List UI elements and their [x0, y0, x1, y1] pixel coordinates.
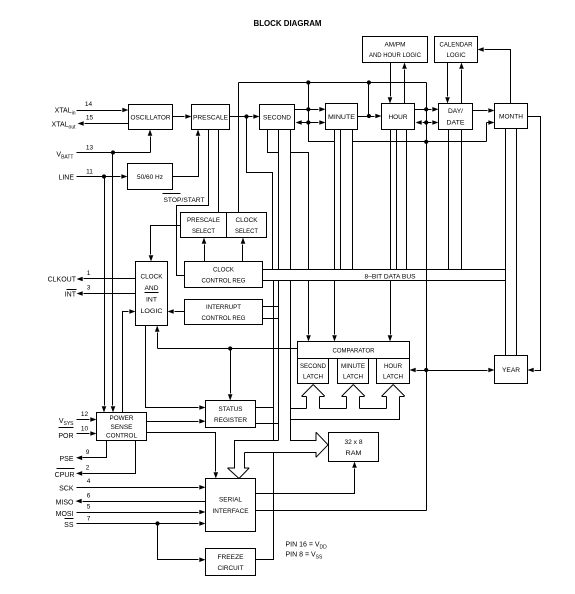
wire hour leg 2 to bus: [396, 130, 398, 270]
pin SCK (4) wire into serial interface: [59, 478, 205, 493]
wire bus drop B (x278.2): [278, 281, 280, 441]
wire day/date up to calendar logic: [459, 63, 464, 104]
block POWER SENSE CONTROL: [97, 413, 147, 441]
svg-text:SELECT: SELECT: [235, 228, 258, 235]
wire second leg 1 to bus: [278, 130, 280, 270]
bus end drop to year: [505, 270, 507, 356]
svg-text:1: 1: [87, 270, 91, 277]
wire bus drop at x308 to horizontal run: [309, 83, 335, 142]
block HOUR LATCH: [377, 359, 410, 384]
svg-text:STATUS: STATUS: [219, 406, 244, 413]
wire hour/daydate bidirectional (bottom): [416, 120, 439, 125]
svg-text:SS: SS: [64, 522, 74, 529]
wire clock control reg up to prescale select: [202, 238, 207, 262]
pin MISO (6) wire out of serial interface: [56, 493, 206, 507]
svg-text:BLOCK DIAGRAM: BLOCK DIAGRAM: [254, 19, 322, 28]
svg-text:CIRCUIT: CIRCUIT: [218, 565, 244, 572]
wire bus drop to comparator 1: [306, 281, 311, 342]
bus top line: [263, 269, 506, 271]
funnel arrow into second latch: [302, 385, 325, 409]
svg-text:LOGIC: LOGIC: [447, 52, 466, 59]
pin CPUR (2) wire from power sense control bottom: [55, 441, 136, 480]
svg-text:32 x 8: 32 x 8: [345, 439, 363, 446]
svg-text:LOGIC: LOGIC: [141, 308, 163, 315]
svg-text:FREEZE: FREEZE: [218, 554, 245, 561]
wire bus drop to latch funnels (x290): [290, 281, 292, 441]
block STATUS REGISTER: [206, 401, 256, 428]
wire bus drop to comparator 3: [388, 281, 393, 342]
svg-text:MISO: MISO: [56, 500, 74, 507]
svg-text:SENSE: SENSE: [111, 424, 133, 431]
bus bottom line: [263, 280, 506, 282]
pin INT (3) wire out of clock-int logic: [65, 285, 136, 299]
wire second leg 2 to bus: [290, 130, 292, 270]
svg-text:SECOND: SECOND: [263, 114, 291, 121]
svg-text:5: 5: [87, 504, 91, 511]
wire second to minute (top): [295, 107, 326, 112]
wire interrupt reg stub 2 to bus drop: [263, 318, 279, 320]
wire second/minute bidirectional (bottom): [296, 120, 326, 125]
pin XTALin (14) wire into oscillator: [55, 101, 129, 116]
svg-text:INT: INT: [65, 292, 77, 299]
wire day/date to month: [473, 108, 495, 113]
wire left bus segment to serial arrow: [235, 441, 279, 469]
wire serial interface feed to RAM arrow bottom: [245, 452, 317, 454]
svg-text:CLOCK: CLOCK: [236, 217, 259, 224]
wire hour to day/date (top): [415, 107, 439, 112]
wire month leg 1 through bus to year: [505, 129, 507, 356]
svg-text:CONTROL: CONTROL: [106, 432, 137, 439]
svg-text:SELECT: SELECT: [192, 228, 215, 235]
wire minute leg 3 to bus: [352, 130, 354, 270]
wire second leg 2 branch to x308: [291, 153, 309, 270]
wire minute to hour: [358, 114, 382, 119]
wire hour up to am/pm logic: [402, 63, 407, 104]
wire day/date leg 1 to bus: [448, 130, 450, 270]
wire month leg 2 through bus to year: [516, 129, 518, 356]
funnel arrow into minute latch: [342, 385, 365, 409]
wire horizontal x352-x486 at y141 up into month: [353, 120, 495, 141]
svg-text:POR: POR: [58, 433, 73, 440]
svg-text:3: 3: [87, 285, 91, 292]
wire am/pm logic down to hour: [388, 63, 393, 104]
wire funnel U loop mid: [320, 408, 347, 410]
svg-text:POWER: POWER: [110, 415, 134, 422]
block CLOCK SELECT: [227, 213, 267, 238]
funnel arrow into hour latch: [382, 385, 405, 409]
wire minute leg 1 to bus: [334, 130, 336, 270]
svg-text:2: 2: [86, 465, 90, 472]
wire power sense riser to clock-int logic left: [123, 309, 136, 412]
svg-text:12: 12: [81, 411, 89, 418]
wire hour funnel right leg to feed line: [291, 409, 400, 420]
block YEAR: [495, 356, 528, 384]
wire bus drop to comparator 2: [332, 281, 337, 342]
pin LINE (11) wire into 50/60 Hz: [58, 169, 127, 182]
svg-text:DAY/: DAY/: [448, 108, 463, 115]
svg-text:DATE: DATE: [447, 120, 466, 127]
wire oscillator to prescale: [173, 114, 192, 119]
svg-text:SCK: SCK: [59, 486, 74, 493]
svg-text:MINUTE: MINUTE: [328, 114, 356, 121]
svg-text:AND: AND: [145, 285, 159, 292]
wire bus drop A (x272.9): [273, 281, 275, 441]
svg-text:CLOCK: CLOCK: [213, 266, 235, 273]
svg-text:8–BIT DATA BUS: 8–BIT DATA BUS: [365, 274, 416, 281]
wire status register stub right 1: [256, 407, 274, 409]
svg-text:50/60 Hz: 50/60 Hz: [137, 174, 163, 181]
wire serial right to bus drop x425: [256, 510, 427, 512]
block SERIAL INTERFACE: [206, 479, 256, 532]
label STOP/START with overline over STOP: [163, 194, 205, 205]
svg-text:LATCH: LATCH: [303, 373, 323, 380]
hollow arrow into RAM: [316, 432, 328, 457]
wire clock-int logic leg to status register: [146, 326, 206, 410]
wire interrupt control reg to clock-int logic: [168, 309, 185, 314]
wire bus drop at x425 down the page: [424, 83, 428, 511]
wire prescale bottom to prescale select top: [218, 130, 220, 213]
wire second leg stub join: [268, 130, 279, 153]
svg-text:CLOCK: CLOCK: [141, 274, 164, 281]
block SECOND LATCH: [298, 359, 329, 384]
svg-text:YEAR: YEAR: [502, 367, 520, 374]
block 32 x 8 RAM: [329, 433, 379, 462]
underline of AND in clock-int-logic: [145, 292, 159, 294]
wire right feed of serial arrow: [244, 453, 246, 469]
wire clock control reg up to clock select: [241, 238, 246, 262]
wire prescale to second with junction: [230, 114, 260, 119]
wire status register stub right 2: [256, 423, 279, 425]
svg-text:OSCILLATOR: OSCILLATOR: [131, 114, 171, 121]
block MINUTE: [326, 104, 358, 130]
wire funnel U loop left: [291, 408, 307, 410]
wire day/date leg 2 to bus: [461, 130, 463, 270]
wire month right edge down to year right: [528, 117, 541, 373]
svg-text:INT: INT: [146, 297, 157, 304]
svg-text:MINUTE: MINUTE: [341, 363, 365, 370]
svg-text:COMPARATOR: COMPARATOR: [333, 347, 375, 354]
svg-text:10: 10: [81, 426, 89, 433]
pin PSE (9) wire from power sense control bottom: [59, 441, 106, 464]
block CLOCK CONTROL REG: [185, 262, 263, 288]
wire vbatt drop to power sense control: [111, 153, 116, 413]
wire serial to RAM bottom: [256, 462, 357, 494]
block COMPARATOR header: [298, 342, 410, 359]
pin SS (7) wire into serial interface with junction to freeze circuit: [64, 516, 205, 530]
svg-text:14: 14: [85, 101, 93, 108]
block MINUTE LATCH: [338, 359, 369, 384]
wire bus drop at x368 to minute-hour wire: [368, 83, 370, 117]
svg-text:CALENDAR: CALENDAR: [440, 42, 473, 49]
pin VBATT (13) wire with junction feeding oscillator: [56, 130, 152, 161]
svg-text:AND HOUR LOGIC: AND HOUR LOGIC: [369, 52, 421, 59]
block OSCILLATOR: [129, 105, 173, 130]
wire hour leg 1 to bus: [390, 130, 392, 270]
block PRESCALE SELECT: [181, 213, 227, 238]
block CALENDAR LOGIC: [435, 37, 478, 63]
svg-text:AM/PM: AM/PM: [385, 42, 406, 49]
svg-text:15: 15: [86, 115, 94, 122]
wire interrupt reg stub 1 to bus drop: [263, 306, 279, 308]
svg-text:HOUR: HOUR: [389, 114, 408, 121]
wire ss junction to freeze circuit: [158, 524, 206, 563]
svg-text:MOSI: MOSI: [56, 511, 74, 518]
block DAY/DATE: [439, 104, 473, 130]
wire top bus from corner to day/date drop: [239, 80, 427, 84]
block INTERRUPT CONTROL REG: [185, 300, 263, 325]
svg-text:CONTROL REG: CONTROL REG: [202, 315, 246, 322]
svg-text:LATCH: LATCH: [343, 373, 363, 380]
block FREEZE CIRCUIT: [206, 549, 256, 576]
hollow arrow into serial interface: [228, 468, 250, 479]
block CLOCK AND INT LOGIC: [136, 262, 168, 326]
svg-text:RAM: RAM: [346, 450, 362, 457]
svg-text:CPUR: CPUR: [55, 472, 75, 479]
wire hour leg 3 to bus: [406, 130, 408, 270]
svg-text:MONTH: MONTH: [499, 113, 523, 120]
wire bus segment down to freeze circuit: [256, 453, 274, 560]
pin VSYS (12) wire into power sense control: [59, 411, 97, 427]
block HOUR: [382, 104, 415, 130]
pin XTALout (15) wire out of oscillator: [52, 115, 129, 131]
wire comparator left to clock-int logic and status register: [155, 326, 298, 401]
pin CLKOUT (1) wire out of clock-int logic: [48, 270, 136, 284]
svg-text:INTERFACE: INTERFACE: [213, 508, 250, 515]
block 50/60 Hz: [128, 164, 173, 190]
svg-text:SECOND: SECOND: [300, 363, 327, 370]
wire funnel chain down to RAM arrow: [291, 409, 317, 441]
svg-text:CONTROL REG: CONTROL REG: [202, 277, 246, 284]
wire junction down and over to data bus (left drop): [247, 117, 273, 270]
svg-text:6: 6: [87, 493, 91, 500]
wire corner drop to clock select top: [238, 83, 240, 213]
pin MOSI (5) wire into serial interface: [56, 504, 206, 519]
block AM/PM AND HOUR LOGIC: [363, 37, 428, 63]
svg-text:PSE: PSE: [59, 456, 73, 463]
wire power sense to serial interface top: [147, 433, 219, 479]
wire prescale bottom to clock control reg (via stop/start): [177, 130, 209, 276]
block MONTH: [495, 104, 528, 129]
wire prescale select left to clock-int logic top: [149, 226, 181, 262]
svg-text:LATCH: LATCH: [383, 373, 403, 380]
svg-text:9: 9: [86, 449, 90, 456]
wire 50/60 Hz to prescale bottom: [173, 130, 201, 177]
wire year latch feed with junctions: [410, 368, 495, 373]
svg-text:REGISTER: REGISTER: [214, 417, 247, 424]
svg-text:LINE: LINE: [58, 175, 74, 182]
wire line drop to power sense control: [102, 177, 107, 413]
pin POR (10) wire into power sense control: [58, 426, 96, 440]
svg-text:HOUR: HOUR: [384, 363, 403, 370]
wire calendar logic down to day/date: [445, 63, 450, 104]
svg-text:STOP/START: STOP/START: [164, 197, 205, 204]
wire minute leg 2 to bus: [340, 130, 342, 270]
svg-text:SERIAL: SERIAL: [219, 497, 242, 504]
svg-text:PRESCALE: PRESCALE: [193, 114, 229, 121]
svg-text:11: 11: [86, 169, 93, 176]
wire power sense to status register: [147, 419, 206, 424]
svg-text:PRESCALE: PRESCALE: [187, 217, 221, 224]
svg-text:4: 4: [87, 478, 91, 485]
svg-text:CLKOUT: CLKOUT: [48, 277, 77, 284]
svg-text:7: 7: [87, 516, 91, 523]
block SECOND: [260, 105, 295, 130]
svg-text:INTERRUPT: INTERRUPT: [206, 304, 241, 311]
svg-text:13: 13: [86, 145, 94, 152]
wire funnel U loop right: [360, 408, 387, 410]
wire month area riser into calendar logic right: [478, 47, 511, 103]
block PRESCALE: [192, 105, 230, 130]
